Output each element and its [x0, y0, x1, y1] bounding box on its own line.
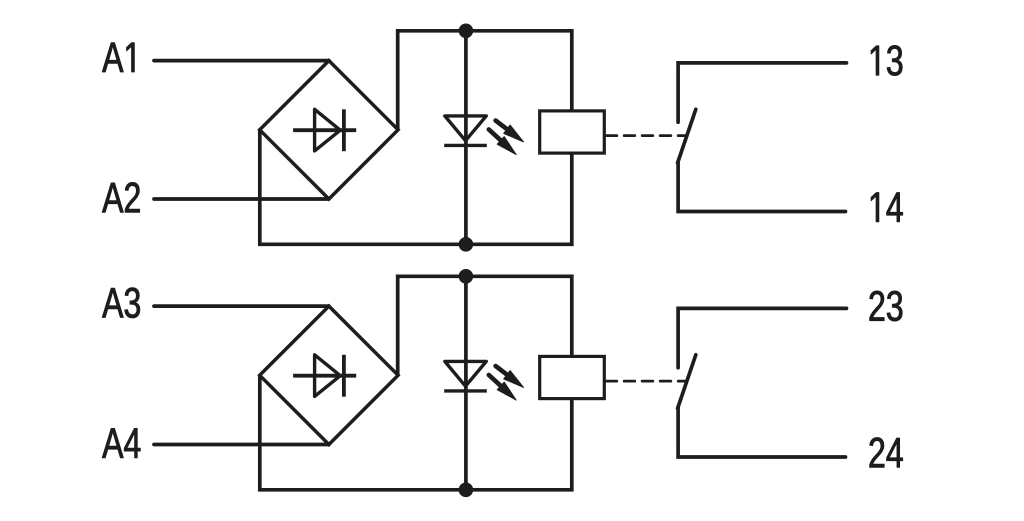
contact 2 moving blade — [678, 355, 696, 409]
LED 2 cathode bar — [444, 389, 487, 392]
LED light arrow upper shaft — [496, 121, 508, 130]
LED triangle — [445, 116, 487, 141]
contact 14 wire from pivot — [678, 162, 845, 212]
wire A3 to bridge top vertex — [154, 304, 329, 308]
contact 23 wire and fixed terminal — [678, 308, 846, 367]
terminal label 24 — [870, 438, 903, 468]
wire LED branch vertical — [464, 31, 468, 245]
mechanical link dashed line to contact 2 — [606, 380, 686, 383]
terminal label A4 — [102, 428, 140, 457]
diode inside bridge: cathode bar — [342, 109, 346, 151]
wire bridge left vertex down to bottom rail and to relay coil bottom — [260, 130, 572, 245]
LED light arrow lower shaft — [489, 129, 502, 141]
LED cathode bar — [444, 144, 487, 147]
diode inside bridge 2: cathode bar — [342, 355, 346, 397]
LED 2 light arrow lower shaft — [489, 375, 502, 387]
LED light arrow upper head — [504, 125, 524, 142]
terminal label 14 — [871, 193, 903, 222]
terminal label 13 — [871, 45, 902, 75]
junction dot top rail 2 — [459, 269, 474, 284]
LED light arrow lower head — [497, 137, 516, 155]
diode inside bridge 2: anode triangle — [315, 355, 341, 397]
contact 13 wire and fixed terminal — [678, 63, 846, 122]
mechanical link dashed line to contact — [606, 134, 686, 137]
wire bridge 2 right vertex up to top rail and to relay coil top — [398, 276, 572, 375]
LED 2 light arrow lower head — [497, 382, 516, 400]
terminal label A3 — [102, 288, 140, 318]
diode inside bridge 2: horizontal lead — [293, 374, 356, 378]
contact 24 wire from pivot — [678, 408, 845, 458]
wire A4 to bridge bottom vertex — [154, 443, 329, 447]
wire A2 to bridge bottom vertex — [154, 197, 329, 201]
LED 2 light arrow upper head — [504, 371, 524, 388]
terminal label A2 — [102, 182, 140, 212]
terminal label 23 — [870, 291, 903, 321]
bridge rectifier diamond (channel 2) — [260, 306, 398, 444]
LED 2 triangle — [445, 361, 487, 386]
junction dot bottom rail — [459, 237, 474, 252]
wire LED branch 2 vertical — [464, 276, 468, 490]
diode inside bridge: horizontal lead — [293, 128, 356, 132]
bridge rectifier diamond — [260, 61, 398, 199]
LED 2 light arrow upper shaft — [496, 366, 508, 375]
diode inside bridge: anode triangle — [315, 109, 341, 151]
terminal label A1 — [102, 43, 134, 72]
relay coil K1 — [540, 111, 605, 153]
relay coil K2 — [540, 356, 605, 398]
wire A1 to bridge top vertex — [154, 59, 329, 63]
wire bridge right vertex up to top rail and to relay coil top — [398, 31, 572, 130]
junction dot top rail — [459, 24, 474, 39]
contact moving blade — [678, 109, 696, 163]
wire bridge 2 left vertex down to bottom rail and to relay coil bottom — [260, 375, 572, 490]
junction dot bottom rail 2 — [459, 483, 474, 498]
